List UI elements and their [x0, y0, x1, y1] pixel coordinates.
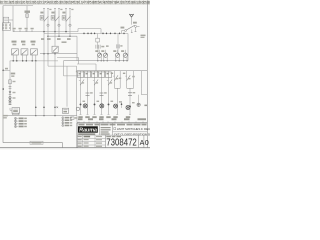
labels under pairs	[41, 38, 44, 40]
label S1	[40, 12, 43, 14]
mark x145.5	[144, 105, 147, 107]
label Y1	[95, 50, 98, 52]
column wire x80.5	[80, 71, 82, 115]
junction x44	[43, 107, 45, 109]
switch K4 box	[52, 46, 58, 52]
meter circle	[138, 95, 140, 103]
connector X1	[2, 23, 10, 31]
rail y70.7	[64, 75, 81, 77]
junction x36	[35, 107, 37, 109]
junction S2 A	[54, 31, 56, 32]
title divider y135.1	[106, 134, 148, 136]
wire-end terminals	[80, 113, 82, 115]
switch blade x108.5	[108, 80, 112, 86]
contact bars	[9, 86, 12, 88]
junction S1 A	[43, 31, 45, 32]
legend2 row 3	[62, 122, 64, 124]
wire drop x76.5	[76, 66, 78, 116]
limit switch S2 right wire	[58, 11, 60, 37]
label chain	[11, 73, 15, 75]
junction dots y104.4	[80, 103, 82, 105]
wires under K2	[22, 55, 24, 61]
stub x121.5 with dot	[121, 101, 123, 108]
contact circle S1	[47, 24, 49, 26]
relay contact box K3	[31, 49, 38, 55]
form col dividers	[82, 135, 84, 148]
switch blade x80.5	[80, 80, 84, 86]
limit switch S3 right wire	[69, 11, 71, 37]
terminals on L2	[83, 32, 85, 33]
relay contact box K2	[21, 49, 28, 55]
junction x55	[54, 107, 56, 109]
contact box x80.5	[78, 72, 84, 78]
coil Y4 top tick	[124, 50, 126, 53]
switch blade x94.5	[94, 80, 98, 86]
junction S2 B	[58, 35, 60, 37]
reg no tiny text	[106, 136, 111, 137]
wire drop Q1 right arrow	[135, 27, 137, 31]
bottom wire line y115.7	[3, 115, 77, 117]
wire bend x77 L3 down	[76, 36, 78, 61]
coil Y1 wires down	[97, 57, 99, 61]
limit switch S2 blade	[55, 16, 60, 21]
right-half lower wires	[116, 88, 118, 114]
right border frame line	[146, 1, 148, 148]
horn H2	[76, 107, 79, 110]
contact box x94.5	[92, 72, 98, 78]
column wire x87.5	[87, 71, 89, 115]
svg-text:0: 0	[145, 140, 149, 147]
junction bus 22.7	[22, 60, 23, 61]
node left frame	[2, 70, 4, 72]
bend x77	[76, 116, 78, 123]
title block left edge	[76, 123, 78, 148]
svg-text:LIMIT SWITCHES F. DECK: LIMIT SWITCHES F. DECK	[117, 127, 150, 131]
wire drop T1	[131, 17, 133, 24]
wire x67 down	[66, 66, 68, 107]
wire horizontal L1 y31.6	[13, 31, 78, 33]
wire Q1 left	[122, 30, 125, 32]
wire x44 down	[43, 32, 45, 116]
actuator box S2	[51, 16, 54, 20]
actuator box S3	[62, 16, 65, 20]
actuator box S1	[40, 16, 43, 20]
upper wire x120.2	[119, 71, 121, 89]
limit switch S3 left wire	[65, 11, 67, 32]
wire top bus	[3, 5, 33, 7]
title mid dividers	[99, 123, 101, 135]
contact Q1 right	[135, 25, 137, 27]
label S3	[62, 12, 65, 14]
wire x48 mid	[47, 36, 49, 66]
bus y60.9	[10, 60, 58, 62]
junction S3 B	[69, 35, 71, 37]
diode D1	[9, 91, 12, 93]
wire y64.0	[77, 63, 96, 65]
solenoid coil Y2	[103, 53, 107, 57]
terminal arrows S2	[54, 7, 56, 9]
legend2 row 1	[62, 117, 64, 119]
wire Q1 right	[137, 25, 140, 27]
title block top line	[77, 122, 147, 124]
label S2	[51, 12, 54, 14]
wire drop x63.5	[63, 61, 65, 76]
wire y66.1	[48, 65, 77, 67]
label ticks above title block	[78, 121, 80, 123]
svg-text:Rauma: Rauma	[79, 127, 98, 133]
circle contact 1	[9, 97, 11, 99]
lamp L2	[102, 103, 103, 105]
wire C1 to drop	[9, 19, 13, 21]
contact Q1 left	[125, 30, 127, 32]
horn H1	[63, 108, 69, 113]
wire drop x128 to coil bus	[127, 34, 129, 61]
legend column 2	[62, 117, 64, 126]
notes far left	[3, 115, 8, 117]
terminal tick x14	[13, 30, 15, 32]
svg-text:A: A	[140, 140, 145, 147]
label Q1a	[121, 27, 125, 29]
wire x141.5 to frame	[141, 88, 143, 94]
wire drop x121.5	[121, 31, 123, 34]
title block labels above	[78, 118, 83, 120]
limit switch S2 left wire	[54, 11, 56, 32]
wire drop x96	[95, 64, 97, 71]
contact circle S3	[69, 24, 71, 26]
svg-text:7308472: 7308472	[106, 137, 137, 149]
limit switch S3 blade	[66, 16, 71, 21]
label Y3	[113, 50, 116, 52]
junction S1 B	[47, 35, 49, 37]
column wire x101.5	[101, 71, 103, 115]
rev cell dividers	[138, 135, 140, 148]
column wire x94.5	[94, 71, 96, 115]
bars lower	[9, 102, 12, 104]
NO contact x87.5	[86, 92, 90, 94]
form cell texts	[78, 136, 82, 137]
crossmark x57	[57, 107, 59, 109]
junction bus 16.8	[16, 60, 17, 61]
logo under text	[78, 133, 95, 135]
solenoid coil Y4	[123, 53, 127, 57]
coil Y1 top tick	[99, 50, 101, 53]
limit switch S1 right wire	[47, 11, 49, 37]
contact box x87.5	[85, 72, 91, 78]
wire bus L3 y36.2	[48, 35, 77, 37]
contact box x108.5	[106, 72, 112, 78]
wires under K3	[31, 55, 33, 61]
legend2 row 4	[62, 125, 64, 127]
upper wire x133.5	[133, 71, 135, 89]
coil Y2 wires down	[103, 57, 105, 61]
junction bus 13.2	[12, 60, 13, 61]
switch blade x114.5	[114, 75, 118, 81]
legend1 row 4	[14, 125, 16, 127]
wire to motor	[9, 108, 11, 111]
title tiny text row full width	[79, 124, 85, 126]
frame label box	[30, 141, 43, 144]
limit switch S1 left wire	[43, 11, 45, 32]
coil Y2 top tick	[105, 50, 107, 53]
column wire x108.5	[108, 71, 110, 115]
lamp L4	[126, 105, 130, 109]
title right divider y131.8	[113, 131, 148, 133]
coil Y3 top tick	[117, 50, 119, 53]
label right margin	[141, 35, 146, 37]
upper wire x114.5	[114, 71, 116, 89]
junction bus 26.3	[26, 60, 27, 61]
terminal tick x20	[19, 30, 21, 32]
terminal arrows S1	[43, 7, 45, 9]
wire route y28.6	[78, 28, 101, 30]
wire bend x78.5	[78, 58, 80, 65]
wire drop x101	[100, 29, 102, 34]
fuse F2	[117, 34, 119, 53]
switch blade x126.7	[126, 75, 130, 81]
fuse F1	[26, 14, 29, 18]
motor M1	[12, 108, 20, 114]
lamp L3	[114, 104, 118, 108]
label F1	[25, 11, 31, 13]
contact box x101.5	[99, 72, 105, 78]
tiny labels near lamps	[83, 101, 86, 102]
NO contact x130	[128, 92, 132, 94]
legend2 row 2	[62, 119, 64, 121]
wire bus L2 y33.5	[44, 33, 128, 35]
wire drop x13	[12, 6, 14, 32]
component hatch III	[95, 45, 97, 49]
junction S3 A	[65, 31, 67, 32]
solenoid coil Y3	[115, 53, 119, 57]
star point T1	[129, 14, 131, 17]
NO contact x101.5	[100, 92, 104, 94]
legend1 row 3	[14, 123, 16, 125]
labels resistor row	[12, 41, 17, 43]
terminal box mid	[96, 38, 100, 42]
limit switch S1 blade	[44, 16, 49, 21]
label Y2	[101, 50, 104, 52]
wire bend x78 up	[77, 29, 79, 32]
terminal tick x26	[25, 30, 27, 32]
bus y53.7	[40, 53, 77, 55]
legend column 1	[15, 118, 17, 128]
contact circle S2	[58, 24, 60, 26]
left border frame line	[2, 6, 4, 143]
disconnect switch Q1 blade	[126, 25, 135, 30]
legend2 box	[71, 117, 74, 120]
wires under K1	[12, 55, 14, 61]
terminal arrows S3	[65, 7, 67, 9]
capacitor C1	[4, 17, 9, 23]
upper wire x126.7	[126, 71, 128, 89]
label Q1b	[133, 22, 137, 24]
legend1 row 2	[14, 120, 16, 122]
form rows left	[77, 134, 106, 136]
relay contact box K1	[12, 49, 19, 55]
upper wire x141.5	[141, 71, 143, 89]
terminal label strip (top edge)	[0, 0, 150, 4]
legend1 row 1	[14, 117, 16, 119]
bottom outer frame line	[0, 147, 150, 149]
resistor R1	[9, 80, 12, 84]
bottom inner frame line	[3, 142, 63, 144]
wire x55 down	[54, 11, 56, 47]
title right text row 1 CIRCUIT DIAGRAM	[114, 128, 116, 130]
junction bus 32.2	[31, 60, 32, 61]
coil Y3 wires down	[115, 57, 117, 61]
solenoid coil Y1	[97, 53, 101, 57]
logo Rauma	[78, 126, 98, 132]
bridge contacts y88.3	[115, 87, 121, 89]
labels mid switch	[62, 41, 67, 43]
lamp L1	[86, 103, 87, 106]
coil Y4 wires down	[123, 57, 125, 61]
label Y4	[121, 50, 124, 52]
wire x36 down	[35, 61, 37, 116]
coil bus y60.7	[64, 60, 129, 62]
marks wires B D	[119, 78, 121, 80]
junction bus 35.8	[35, 60, 36, 61]
circle contact 2	[9, 100, 11, 102]
wire chain x10	[9, 61, 11, 105]
terminal tick x32	[31, 30, 33, 32]
wire y57.5	[57, 57, 79, 59]
wire drop x27	[26, 6, 28, 32]
